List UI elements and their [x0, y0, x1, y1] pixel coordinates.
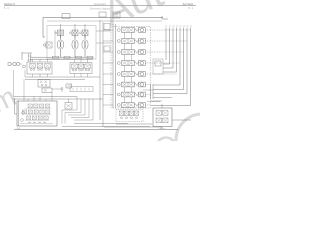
svg-text:Section 5: Section 5 [4, 2, 15, 6]
svg-text:5 - 1: 5 - 1 [4, 8, 9, 10]
svg-text:—W5—: —W5— [158, 128, 166, 130]
svg-text:Sec.5(a)1: Sec.5(a)1 [183, 3, 194, 6]
svg-text:Schematic diagram: Schematic diagram [90, 7, 110, 10]
svg-text:Hydraulics: Hydraulics [94, 2, 107, 6]
svg-text:5 - 1: 5 - 1 [188, 8, 193, 10]
